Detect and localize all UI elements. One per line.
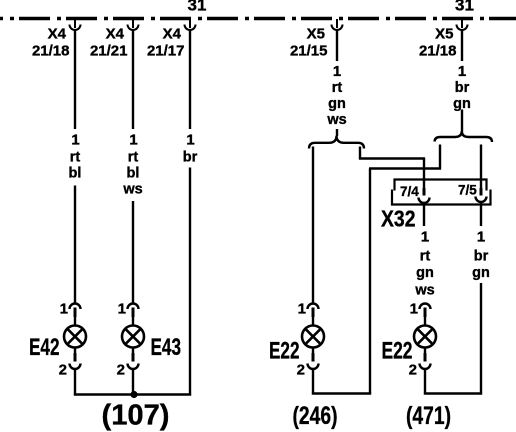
svg-text:gn: gn: [328, 96, 346, 112]
svg-text:E22: E22: [269, 338, 300, 365]
lamp E22 (246) pin 1 stub: [312, 308, 315, 318]
X32 pin 7/4 socket: [419, 198, 430, 204]
wire 3 lower segment (down to ground rail 107): [189, 168, 191, 396]
svg-text:7/4: 7/4: [400, 184, 419, 199]
svg-text:1: 1: [333, 63, 341, 80]
junction (E43 to rail 107): [130, 391, 137, 398]
svg-text:2: 2: [59, 362, 67, 379]
svg-text:7/5: 7/5: [458, 183, 477, 198]
svg-text:X4: X4: [48, 26, 67, 43]
svg-text:X5: X5: [307, 26, 325, 43]
ground rail 107: [74, 393, 191, 396]
svg-text:2: 2: [297, 362, 305, 379]
svg-text:X32: X32: [381, 206, 416, 232]
lamp E22 (471) pin 1 socket: [420, 304, 431, 310]
svg-text:31: 31: [455, 0, 474, 15]
lamp E22 (471) pin 2 stub: [424, 347, 426, 353]
svg-text:br: br: [455, 80, 470, 96]
svg-text:X4: X4: [163, 26, 182, 43]
svg-text:E42: E42: [29, 334, 60, 361]
splice brace (wire 4 split): [309, 136, 364, 149]
wire 4 stub to splice: [336, 129, 338, 136]
lamp E42 pin 1 socket: [70, 304, 81, 310]
lamp E43 pin 2 wire: [132, 369, 134, 396]
svg-text:bl: bl: [127, 166, 140, 182]
lamp E22 (471) pin 2 wire: [424, 369, 426, 395]
svg-text:1: 1: [421, 229, 429, 246]
svg-text:gn: gn: [416, 265, 434, 281]
lamp E43 pin 1 socket: [128, 304, 139, 310]
return rail (471): [424, 392, 482, 395]
svg-text:2: 2: [409, 362, 417, 379]
X32 pin 7/5 socket: [476, 197, 487, 203]
lamp E22 (471) pin 2 socket: [420, 364, 431, 370]
svg-text:1: 1: [458, 63, 466, 80]
svg-text:1: 1: [477, 229, 485, 246]
svg-text:rt: rt: [128, 150, 139, 166]
lamp E42 bulb: [64, 326, 86, 348]
wire rt/gn/ws branch B horizontal: [359, 157, 425, 159]
svg-text:1: 1: [118, 301, 126, 318]
lamp E22 (246) bulb: [302, 326, 324, 348]
svg-text:1: 1: [186, 132, 194, 149]
lamp E43 pin 1 stub: [132, 308, 135, 318]
svg-text:(246): (246): [293, 402, 338, 430]
wire rt/gn/ws branch B vertical: [359, 147, 361, 159]
svg-text:ws: ws: [326, 112, 346, 128]
lamp E22 (471) bulb: [414, 326, 436, 348]
wire 5 stub to splice: [461, 110, 463, 132]
lamp E22 (246) pin 2 stub: [312, 347, 314, 353]
connector X4 pin 21/17 (bus socket): [185, 19, 196, 30]
lamp E42 pin 1 stub: [74, 308, 77, 318]
svg-text:1: 1: [410, 301, 418, 318]
wire 1 upper segment (rt/bl): [74, 30, 76, 129]
svg-text:X4: X4: [106, 26, 125, 43]
svg-text:21/18: 21/18: [32, 43, 70, 60]
connector X32 (upper half-shell): [395, 180, 487, 191]
connector X32 (lower half-shell): [392, 190, 491, 205]
ground bus 31 (dash-dot rail): [0, 17, 516, 21]
lamp E22 (246) pin 2 wire: [312, 369, 314, 395]
connector X4 pin 21/18 (bus socket): [70, 19, 81, 30]
svg-text:21/17: 21/17: [147, 43, 185, 60]
wire rt/gn/ws branch A (to lamp E22 246): [312, 147, 314, 304]
svg-text:(471): (471): [406, 402, 451, 430]
svg-text:(107): (107): [102, 400, 170, 432]
wire 5 upper segment (br/gn): [461, 30, 463, 61]
svg-text:1: 1: [60, 301, 68, 318]
svg-text:E43: E43: [151, 334, 182, 361]
wire br/gn branch A drop (to lamp E22 246 return): [369, 169, 371, 395]
svg-text:31: 31: [188, 0, 207, 15]
svg-text:br: br: [474, 249, 489, 265]
connector X4 pin 21/21 (bus socket): [128, 19, 139, 30]
lamp E22 (246) pin 2 socket: [308, 364, 319, 370]
splice brace (wire 5 split): [435, 131, 493, 142]
svg-text:2: 2: [117, 362, 125, 379]
lamp E43 pin 2 socket: [128, 364, 139, 370]
svg-text:1: 1: [71, 132, 79, 149]
svg-text:gn: gn: [472, 265, 490, 281]
svg-text:21/18: 21/18: [419, 43, 457, 60]
wire br/gn branch A vertical: [439, 145, 441, 169]
wire 3 upper segment (br): [189, 30, 191, 129]
connector X5 pin 21/15 (bus socket): [332, 19, 343, 30]
wire br/gn branch B drop to X32 pin 7/5: [480, 145, 482, 189]
lamp E43 pin 2 stub: [132, 347, 134, 353]
svg-text:rt: rt: [420, 249, 431, 265]
wire rt/gn/ws branch B drop to X32 pin 7/4: [423, 159, 425, 189]
wire 7/5 lower segment: [480, 283, 482, 395]
svg-text:rt: rt: [332, 80, 343, 96]
lamp E43 bulb: [122, 326, 144, 348]
lamp E22 (471) pin 1 stub: [424, 308, 427, 318]
wire 2 upper segment (rt/bl/ws): [132, 30, 134, 129]
lamp E42 pin 2 wire: [74, 369, 76, 396]
lamp E42 pin 2 socket: [70, 364, 81, 370]
svg-text:br: br: [183, 150, 198, 166]
svg-text:X5: X5: [435, 26, 453, 43]
lamp E22 (246) pin 1 socket: [308, 304, 319, 310]
lamp E42 pin 2 stub: [74, 347, 76, 353]
svg-text:ws: ws: [122, 182, 142, 198]
wire 1 lower segment: [74, 186, 76, 304]
svg-text:21/15: 21/15: [290, 43, 328, 60]
connector X5 pin 21/18 (bus socket): [457, 19, 468, 30]
wire 4 upper segment (rt/gn/ws): [336, 30, 338, 61]
svg-text:ws: ws: [414, 283, 434, 299]
wire br/gn branch A horizontal: [369, 167, 441, 169]
svg-text:E22: E22: [382, 338, 413, 365]
wire below X32 pin 7/5 (br/gn): [480, 203, 482, 226]
svg-text:bl: bl: [69, 166, 82, 182]
wire below X32 pin 7/4 (rt/gn/ws): [423, 203, 425, 226]
svg-text:1: 1: [298, 301, 306, 318]
svg-text:rt: rt: [70, 150, 81, 166]
return rail (246): [312, 392, 371, 395]
wire 2 lower segment: [132, 201, 134, 303]
svg-text:21/21: 21/21: [90, 43, 128, 60]
svg-text:1: 1: [129, 132, 137, 149]
